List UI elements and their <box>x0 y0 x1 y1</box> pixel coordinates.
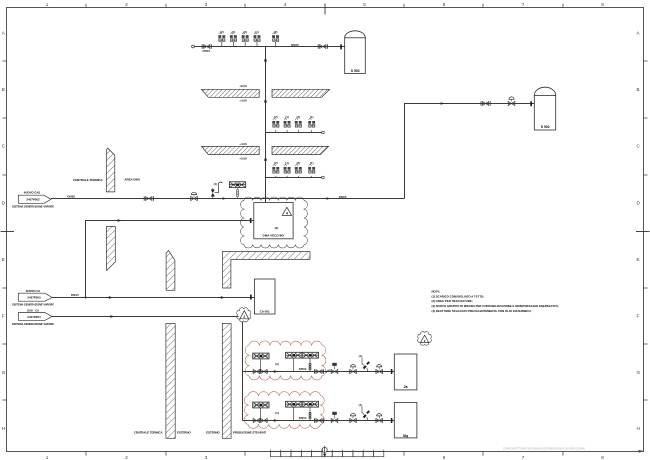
svg-text:NUOVO CA: NUOVO CA <box>26 289 41 293</box>
off-page connector NUOVO GAS <box>18 195 51 203</box>
revision cloud red 2 <box>244 392 324 429</box>
svg-text:(4): (4) <box>275 226 279 230</box>
svg-text:+0,00: +0,00 <box>239 156 247 160</box>
row ticks left <box>3 60 7 62</box>
flange tick CA001 <box>250 295 252 300</box>
datum symbol <box>322 447 327 452</box>
svg-text:(2): (2) <box>274 161 278 165</box>
control valve CV2 <box>509 97 514 99</box>
svg-text:DN50: DN50 <box>71 293 79 297</box>
svg-text:5: 5 <box>363 2 366 7</box>
svg-text:PRODUZIONE STEARATI: PRODUZIONE STEARATI <box>233 431 266 435</box>
end cap left <box>192 45 195 48</box>
line 2 tail <box>314 418 323 422</box>
svg-text:(2): (2) <box>274 115 278 119</box>
svg-text:2407P003: 2407P003 <box>27 296 41 300</box>
svg-text:S 502: S 502 <box>351 69 360 73</box>
control valve CV1 <box>191 192 196 194</box>
svg-text:8: 8 <box>601 2 604 7</box>
floor slab left +8.00 <box>202 89 260 97</box>
off-page connector GAS-CA <box>18 313 52 321</box>
svg-text:SISTEMA GENERAZIONE VAPORE: SISTEMA GENERAZIONE VAPORE <box>12 303 54 307</box>
off-page connector NUOVO CA <box>18 293 52 301</box>
instrument box I1 <box>229 182 245 188</box>
svg-text:(2): (2) <box>220 30 224 34</box>
svg-text:B: B <box>637 87 640 92</box>
svg-text:4: 4 <box>284 2 287 7</box>
svg-text:+4,00: +4,00 <box>239 99 247 103</box>
box GMA VECCHIO <box>254 203 293 239</box>
wall W2 <box>106 227 115 271</box>
take-offs <box>272 115 279 133</box>
revision cloud GMA <box>240 197 307 248</box>
wall area GMA <box>106 148 115 192</box>
svg-text:(2): (2) <box>274 30 278 34</box>
flange tick <box>250 218 252 223</box>
box CA 001 <box>254 279 275 314</box>
svg-text:G: G <box>637 370 641 375</box>
svg-text:(1): (1) <box>310 161 314 165</box>
warning triangle <box>282 207 291 215</box>
svg-text:ESTERNO: ESTERNO <box>206 431 220 435</box>
ruler ticks top <box>85 4 87 8</box>
svg-text:H: H <box>637 426 640 431</box>
svg-text:(2): (2) <box>296 161 300 165</box>
valve V4 <box>481 101 490 105</box>
svg-text:1: 1 <box>46 2 49 7</box>
row ticks right <box>644 60 648 62</box>
svg-text:DN50: DN50 <box>299 367 307 371</box>
svg-text:ESTERNO: ESTERNO <box>177 431 191 435</box>
svg-text:2: 2 <box>125 2 128 7</box>
svg-text:(1): (1) <box>285 161 289 165</box>
svg-text:(2): (2) <box>243 30 247 34</box>
svg-text:3: 3 <box>205 455 208 460</box>
floor slab left +4.00 <box>202 146 260 154</box>
svg-text:(2) LINEE PER TRACCIATURE;: (2) LINEE PER TRACCIATURE; <box>432 299 473 303</box>
graphic scale bar <box>270 451 383 456</box>
svg-text:E: E <box>637 257 640 262</box>
valve V2 <box>318 44 327 48</box>
bottom border arrowhead <box>639 450 645 453</box>
svg-text:DN65: DN65 <box>67 195 75 199</box>
svg-text:CENTRALE TERMICA: CENTRALE TERMICA <box>73 178 104 182</box>
svg-text:(2): (2) <box>296 115 300 119</box>
svg-text:2: 2 <box>125 455 128 460</box>
svg-text:GMA VECCHIO: GMA VECCHIO <box>262 234 284 238</box>
svg-text:SISTEMA GENERAZIONE VAPORE: SISTEMA GENERAZIONE VAPORE <box>12 205 54 209</box>
svg-text:(1): (1) <box>310 115 314 119</box>
svg-text:E: E <box>2 257 5 262</box>
svg-text:DN65: DN65 <box>291 43 299 47</box>
triangle cloud TC2 <box>418 332 432 346</box>
svg-text:S:\PROGETTI\2407\SCHEMA DISTRI: S:\PROGETTI\2407\SCHEMA DISTRIBUZIONE GA… <box>503 447 585 451</box>
svg-text:CA 001: CA 001 <box>260 310 270 314</box>
svg-text:+8,00: +8,00 <box>239 84 247 88</box>
svg-text:B: B <box>2 87 5 92</box>
box 2a <box>394 354 417 390</box>
svg-text:DN50: DN50 <box>299 416 307 420</box>
svg-text:(4) REATTORE SCALDATO PREVALEN: (4) REATTORE SCALDATO PREVALENTEMENTE CO… <box>432 309 532 313</box>
vessel S 502 (right) <box>534 87 555 130</box>
valve V3 <box>144 196 153 200</box>
svg-text:8: 8 <box>601 455 604 460</box>
pipe top header <box>194 46 345 48</box>
wall W3 <box>166 250 175 290</box>
valve V1 DN15 <box>202 44 211 48</box>
svg-text:3: 3 <box>205 2 208 7</box>
svg-text:1: 1 <box>46 455 49 460</box>
svg-text:(1) SCARICO CONVOGLIATO A TETT: (1) SCARICO CONVOGLIATO A TETTO; <box>432 294 485 298</box>
svg-text:DN65: DN65 <box>339 195 347 199</box>
svg-text:F: F <box>637 314 640 319</box>
pipe NUOVO CA <box>52 297 254 299</box>
svg-text:NOTE:: NOTE: <box>432 290 441 294</box>
triangle cloud TC1 <box>237 308 251 322</box>
wire down from TC1 <box>242 322 244 421</box>
svg-text:7: 7 <box>522 2 525 7</box>
warning triangle TC2 <box>420 335 428 342</box>
pipe branch <box>243 420 395 422</box>
flow arrow <box>327 197 331 200</box>
svg-text:DN15: DN15 <box>203 49 211 53</box>
svg-text:AREA GMA: AREA GMA <box>124 178 141 182</box>
metering group (3) <box>253 353 269 359</box>
svg-text:CENTRALE TERMICA: CENTRALE TERMICA <box>134 431 163 435</box>
metering group (3) <box>253 402 269 408</box>
pipe sub-header <box>266 132 322 134</box>
revision cloud red 1 <box>245 341 326 380</box>
pipe branch <box>243 371 395 373</box>
pipe main gas <box>51 198 405 200</box>
floor slab right +8.00 <box>272 89 330 97</box>
svg-text:F: F <box>2 314 5 319</box>
svg-text:2a: 2a <box>404 385 408 389</box>
svg-text:7: 7 <box>522 455 525 460</box>
svg-text:(1): (1) <box>232 30 236 34</box>
flange tick S2 <box>530 101 532 106</box>
svg-text:2407P002: 2407P002 <box>26 198 40 202</box>
line 1 tail <box>314 369 323 373</box>
svg-text:2: 2 <box>243 315 245 319</box>
wire to GMA box left <box>86 221 254 298</box>
ruler ticks bottom <box>85 451 87 455</box>
wire central riser <box>265 47 267 203</box>
box Mg <box>394 403 417 438</box>
svg-text:+4,00: +4,00 <box>239 142 247 146</box>
svg-text:S 502: S 502 <box>541 125 550 129</box>
svg-text:NUOVO GAS: NUOVO GAS <box>24 191 41 195</box>
pipe to S2 <box>405 104 535 199</box>
vessel S 502 (left) <box>345 31 366 74</box>
pipe sub-header <box>266 177 322 179</box>
svg-text:(1): (1) <box>255 30 259 34</box>
warning triangle TC1 <box>240 311 249 319</box>
wall W5 <box>166 324 175 439</box>
svg-text:(1): (1) <box>214 182 218 186</box>
pipe GAS-CA <box>52 316 239 318</box>
svg-text:6: 6 <box>443 455 446 460</box>
svg-text:G: G <box>2 370 6 375</box>
flange tick at vessel S1 <box>340 44 342 49</box>
svg-text:(1): (1) <box>359 354 363 358</box>
note block <box>432 290 559 313</box>
take-offs <box>272 161 279 178</box>
wall W6 <box>222 324 231 439</box>
svg-text:(1): (1) <box>285 115 289 119</box>
riser take-offs on header <box>218 30 225 47</box>
svg-text:(1): (1) <box>359 403 363 407</box>
svg-text:2407P004: 2407P004 <box>27 315 41 319</box>
svg-text:SISTEMA GENERAZIONE VAPORE: SISTEMA GENERAZIONE VAPORE <box>12 322 54 326</box>
flow arrows up <box>264 57 267 62</box>
svg-text:(3): (3) <box>275 411 279 415</box>
floor slab right +4.00 <box>272 146 329 154</box>
svg-text:H: H <box>2 426 5 431</box>
svg-text:GAS - CA: GAS - CA <box>27 309 39 313</box>
svg-text:4: 4 <box>286 212 288 216</box>
svg-text:6: 6 <box>443 2 446 7</box>
svg-text:Mg: Mg <box>403 434 408 438</box>
wall W4 L-shape <box>223 252 311 288</box>
svg-text:(3): (3) <box>275 362 279 366</box>
svg-text:(3) NUOVO GRUPPO DI MISURA PER: (3) NUOVO GRUPPO DI MISURA PER CONTABILI… <box>432 304 559 308</box>
